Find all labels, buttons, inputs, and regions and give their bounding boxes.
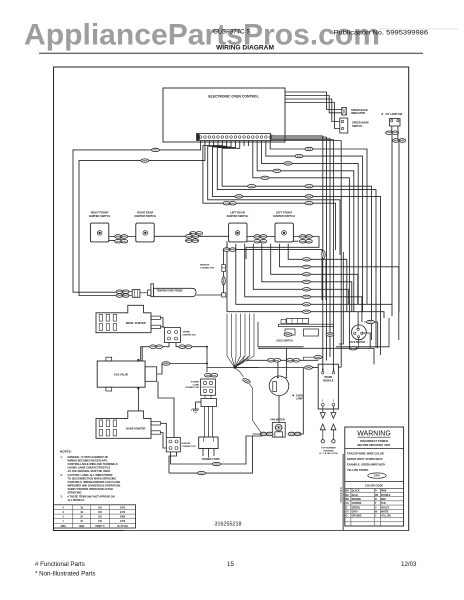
gas valve tab bottom: [106, 387, 112, 391]
connector on wire S-3: [305, 195, 313, 198]
connector on wire S-5: [305, 185, 313, 188]
svg-text:2473: 2473: [120, 520, 126, 523]
electronic oven control U1: [163, 88, 285, 142]
svg-text:BU: BU: [346, 495, 350, 497]
wire block to probe: [140, 292, 148, 294]
fan motor M1: [272, 422, 285, 437]
connector below right: [322, 251, 325, 259]
wire S-5: [222, 141, 371, 341]
svg-text:SPEED BAKE: SPEED BAKE: [351, 108, 368, 112]
svg-text:TAN: TAN: [381, 502, 386, 505]
ground symbol: [195, 402, 197, 409]
wire C-3: [271, 137, 331, 139]
wire R1-3: [262, 141, 359, 305]
svg-text:SERVICING.: SERVICING.: [68, 490, 83, 494]
svg-text:15: 15: [227, 561, 234, 568]
svg-text:AS THE ORIGINAL MUST BE USED.: AS THE ORIGINAL MUST BE USED.: [68, 469, 111, 473]
diagram border: [54, 67, 409, 531]
connector pair lamp bus left: [268, 359, 281, 363]
igniter connector B: [166, 437, 180, 452]
connector pair on wire A2: [179, 345, 192, 349]
svg-text:ALL MODELS.: ALL MODELS.: [68, 498, 86, 502]
connector on sensor chain: [222, 277, 225, 285]
wire lock motor bottom: [358, 337, 360, 348]
temperature probe collar: [148, 290, 151, 296]
igniter connector A: [164, 328, 180, 343]
svg-text:BAKE IGNITER: BAKE IGNITER: [126, 427, 145, 431]
svg-text:CONTROLLABLE WIRE AND TERMINAL: CONTROLLABLE WIRE AND TERMINALS: [68, 462, 118, 466]
wire loop-4: [262, 244, 352, 312]
probe connector block: [132, 290, 140, 298]
svg-text:POWER: POWER: [191, 382, 200, 384]
svg-text:HAVING SAME CHARACTERISTICS: HAVING SAME CHARACTERISTICS: [68, 466, 111, 470]
svg-text:LOCK SWITCH: LOCK SWITCH: [276, 340, 293, 343]
svg-text:TEMPERATURE PROBE: TEMPERATURE PROBE: [157, 290, 184, 293]
junction dot gas valve bottom: [137, 387, 139, 389]
svg-text:BK: BK: [346, 491, 350, 493]
svg-text:GRAY: GRAY: [352, 511, 359, 514]
svg-text:FAN MOTOR: FAN MOTOR: [270, 419, 285, 422]
power cord plug: [199, 437, 218, 449]
wire S-1: [203, 141, 336, 251]
wire igniter bus 2-3: [154, 235, 228, 237]
wire loop-1: [288, 244, 347, 312]
bake igniter tabs: [151, 422, 161, 425]
wire C-4: [271, 138, 334, 140]
connector on bottom bus 2: [198, 471, 206, 474]
svg-text:WIRING DIAGRAM: WIRING DIAGRAM: [216, 44, 274, 51]
svg-text:WIRING BECOMES NECESSARY,: WIRING BECOMES NECESSARY,: [68, 459, 108, 463]
svg-text:LEFT FRONT: LEFT FRONT: [276, 211, 293, 215]
wires connector to strain relief: [204, 395, 206, 398]
connector on left wire: [152, 148, 160, 151]
lock switch assembly: [281, 320, 286, 324]
connector on loop-5: [303, 288, 311, 291]
wire bottom bus 1: [177, 436, 252, 464]
connector on wire R1-3: [284, 162, 292, 165]
bake igniter: [96, 411, 151, 438]
svg-text:NOTED FIRST, STRIPE NEXT.: NOTED FIRST, STRIPE NEXT.: [347, 457, 383, 461]
svg-text:ORANGE: ORANGE: [352, 515, 363, 518]
svg-text:PURPLE: PURPLE: [381, 495, 391, 497]
svg-text:EXAMPLE: GREEN WIRE WITH: EXAMPLE: GREEN WIRE WITH: [347, 463, 385, 467]
wire lock motor top: [357, 312, 359, 329]
wire oven lamp bottom: [278, 396, 280, 423]
svg-text:BLACK: BLACK: [352, 490, 360, 493]
wire lower return 2: [245, 247, 247, 259]
svg-text:GREEN: GREEN: [352, 507, 361, 509]
connector cluster right of sw4: [299, 235, 312, 239]
connector on loop-3: [303, 273, 311, 276]
svg-text:2.: 2.: [61, 473, 63, 477]
wire lamp switch left leg: [391, 126, 393, 131]
wire EOC to left loop inner: [79, 141, 205, 296]
lock switch oval left: [284, 333, 292, 336]
connector on loop-4: [303, 280, 311, 283]
spark output arrows down: [320, 413, 325, 419]
svg-text:GAS VALVE: GAS VALVE: [114, 373, 129, 377]
wire valve ext down: [158, 381, 174, 437]
svg-text:RED: RED: [381, 499, 386, 501]
wire gauge table: [54, 505, 136, 528]
connector pair on lamp switch left leg: [386, 131, 399, 135]
wire R1-2: [266, 141, 363, 312]
gas valve tab top: [106, 357, 112, 361]
svg-text:TEMP °C: TEMP °C: [95, 526, 105, 528]
connector lamp bus single: [314, 356, 322, 359]
wire to lower right: [235, 250, 322, 253]
wire right vert 343: [342, 454, 344, 531]
svg-text:WARNING: WARNING: [357, 431, 391, 438]
svg-text:RIGHT REAR: RIGHT REAR: [137, 211, 153, 215]
wire R1-4: [257, 141, 354, 312]
svg-text:O: O: [346, 516, 348, 518]
svg-text:2473: 2473: [120, 511, 126, 514]
svg-text:TO DISCONNECTION WHEN SERVICIN: TO DISCONNECTION WHEN SERVICING: [68, 477, 117, 481]
wire broil tabs to connector: [161, 318, 164, 328]
svg-text:12/03: 12/03: [401, 561, 417, 568]
power cord connector J1: [201, 379, 216, 395]
wire fan right up: [299, 368, 303, 434]
wire lamp bus 2: [246, 359, 318, 361]
svg-text:UL STYLE: UL STYLE: [117, 526, 129, 528]
svg-text:CORD: CORD: [193, 384, 200, 386]
svg-text:YELLOW STRIPE.: YELLOW STRIPE.: [347, 468, 369, 472]
svg-text:TRACER WIRE: WIRE COLOR: TRACER WIRE: WIRE COLOR: [347, 452, 384, 456]
wire fan left: [253, 433, 263, 435]
connector on wire R1-1: [305, 147, 313, 150]
wire loop-7: [236, 244, 392, 316]
svg-text:COLOR CODE: COLOR CODE: [365, 484, 383, 488]
svg-text:(2, 3, 4 OR 5 PCS): (2, 3, 4 OR 5 PCS): [319, 452, 338, 455]
svg-text:CONNECTOR: CONNECTOR: [185, 387, 199, 389]
spark module U2: [318, 364, 338, 409]
connector on loop-8: [303, 310, 311, 313]
svg-text:# Functional Parts: # Functional Parts: [35, 561, 85, 568]
svg-text:POWER CORD: POWER CORD: [202, 458, 220, 461]
temperature probe flange: [151, 284, 154, 297]
svg-text:GR/Y: GR/Y: [374, 475, 380, 478]
wire loop-3: [271, 244, 358, 304]
svg-text:MODULE: MODULE: [323, 380, 334, 383]
svg-text:IGNITER SWITCH: IGNITER SWITCH: [273, 214, 295, 218]
strain relief: [201, 399, 217, 407]
svg-text:316255218-B: 316255218-B: [339, 487, 343, 503]
connector on valve wire: [162, 362, 170, 365]
connector pair lamp bus right: [287, 359, 300, 363]
wire stub to C rail: [325, 260, 327, 300]
speed bake switch S2: [340, 118, 348, 133]
svg-text:IGNITER SWITCH: IGNITER SWITCH: [89, 214, 111, 218]
connector on loop-1: [303, 258, 311, 261]
svg-text:316255218: 316255218: [215, 521, 242, 527]
svg-text:GLGF377C S: GLGF377C S: [213, 29, 251, 36]
connector on module feed: [305, 366, 313, 369]
wire bottom bus 2: [169, 436, 262, 473]
connector 2 on wire S-3: [235, 195, 243, 198]
svg-text:SPEED BAKE: SPEED BAKE: [352, 121, 369, 125]
svg-text:VERIFY PROPER OPERATION AFTER: VERIFY PROPER OPERATION AFTER: [68, 487, 114, 491]
wire S-3: [213, 141, 381, 356]
probe connector pair 2: [116, 294, 129, 298]
wire C-2: [271, 136, 327, 138]
wire R1-1: [270, 141, 367, 305]
svg-text:2472: 2472: [120, 506, 126, 509]
svg-text:* Non-Illustrated Parts: * Non-Illustrated Parts: [35, 571, 96, 578]
svg-text:ELECTRONIC OVEN CONTROL: ELECTRONIC OVEN CONTROL: [208, 95, 258, 99]
wire EOC to left loop outer: [73, 141, 201, 293]
wire loop-6: [245, 244, 362, 322]
svg-text:IGNITER SW: IGNITER SW: [183, 334, 197, 336]
connector pair above power cord connector: [205, 373, 218, 377]
wire C-5: [271, 140, 342, 142]
connector pair below sw3: [223, 248, 236, 252]
connector on loop-2: [303, 265, 311, 268]
wire loop-5: [253, 244, 348, 304]
wire igniter bus 3-4: [246, 236, 275, 238]
connector on wire S-1: [305, 202, 313, 205]
title rule: [39, 52, 423, 54]
probe connector pair 1: [116, 290, 129, 294]
connector on wire R1-5: [261, 176, 269, 179]
lock motor M2: [352, 325, 367, 340]
svg-text:CONNECTOR: CONNECTOR: [200, 267, 214, 269]
wire gas valve top right: [141, 347, 143, 361]
svg-text:LEFT REAR: LEFT REAR: [230, 211, 245, 215]
svg-text:BEFORE SERVICING UNIT.: BEFORE SERVICING UNIT.: [358, 443, 391, 447]
connector left igniter row: [190, 232, 203, 236]
oven lamp E1: [269, 376, 289, 396]
junction node X: [233, 366, 235, 368]
rule under part number: [124, 530, 409, 532]
wire below igniter connector A: [141, 343, 169, 361]
lock switch bar: [278, 324, 333, 326]
connector pair on lamp switch right leg: [393, 139, 406, 143]
faint top rule: [378, 28, 458, 30]
wire sensor to probe jack: [197, 294, 222, 296]
wire vert 343: [339, 252, 343, 344]
lock switch oval right: [326, 333, 334, 336]
connector on loop-6: [303, 295, 311, 298]
svg-text:CONNECTOR: CONNECTOR: [182, 446, 196, 448]
svg-text:BROWN: BROWN: [352, 499, 361, 501]
tracer example oval: [368, 473, 386, 478]
svg-text:IGNITER SWITCH: IGNITER SWITCH: [227, 214, 249, 218]
svg-text:YELLOW: YELLOW: [381, 516, 392, 518]
power cord cable: [204, 407, 206, 438]
svg-text:DISCONNECT POWER: DISCONNECT POWER: [360, 439, 388, 443]
wire stub terminals: [208, 141, 210, 147]
sensor junction square: [222, 293, 226, 297]
EOC terminal strip: [197, 134, 271, 141]
temperature probe body: [154, 288, 197, 296]
lock enclosure: [258, 318, 389, 347]
svg-text:LOCK MOTOR: LOCK MOTOR: [349, 341, 366, 344]
svg-text:COPPER: COPPER: [352, 503, 362, 505]
svg-text:BLUE: BLUE: [352, 495, 359, 497]
svg-text:OV LAMP SW: OV LAMP SW: [386, 112, 403, 116]
wire lock motor right: [362, 333, 370, 348]
svg-text:NOTES:: NOTES:: [60, 449, 72, 453]
wire connector B to bottom bus: [171, 452, 178, 464]
svg-text:INDICATOR: INDICATOR: [351, 111, 365, 115]
broil igniter: [96, 305, 151, 332]
broil igniter tabs: [151, 316, 161, 319]
wire loop-2: [280, 244, 399, 340]
svg-text:SENSOR: SENSOR: [200, 265, 210, 267]
svg-text:AWG: AWG: [60, 525, 66, 528]
connector on diagonal wire: [242, 378, 251, 384]
connector on wire R1-4: [273, 169, 281, 172]
wire sw4 return loop: [246, 237, 319, 248]
svg-text:BR: BR: [346, 499, 350, 501]
gas valve V1: [97, 361, 145, 387]
connector on bottom bus 1: [213, 462, 221, 465]
svg-text:G: G: [346, 507, 348, 509]
svg-text:AWG: AWG: [79, 525, 85, 528]
wire lamp switch right leg: [397, 126, 399, 139]
connector cluster between sw1 sw2: [115, 235, 128, 239]
svg-text:2465: 2465: [120, 516, 126, 519]
wire sensor chain: [223, 250, 225, 265]
svg-text:SWITCH: SWITCH: [352, 124, 362, 128]
svg-text:GENERAL: IF REPLACEMENT OF: GENERAL: IF REPLACEMENT OF: [68, 455, 109, 459]
gas valve right extension: [145, 367, 157, 382]
svg-text:VIOLET: VIOLET: [381, 507, 390, 509]
svg-text:IGNITER: IGNITER: [182, 443, 191, 445]
spark receive arrows up: [320, 424, 325, 430]
wire elbow into module right: [338, 366, 341, 368]
wire loop-8: [227, 244, 384, 318]
power cord prongs: [202, 449, 204, 457]
wire convergence into X: [227, 314, 235, 368]
junction dot gas valve top: [137, 359, 139, 361]
wire module feed: [235, 367, 304, 369]
svg-text:✶: ✶: [381, 112, 384, 116]
wire S-2: [208, 141, 340, 256]
connector on left inner wire: [141, 159, 149, 162]
wire igniter bus 1-2: [109, 236, 136, 238]
wire center vertical to power connector: [206, 347, 208, 372]
svg-text:WHITE: WHITE: [381, 512, 389, 514]
connector 2 on wire S-5: [248, 185, 256, 188]
wire gas valve bottom down: [137, 388, 139, 411]
wire R1-5: [253, 141, 350, 349]
svg-text:1.: 1.: [61, 455, 63, 459]
connector cluster right of sw2: [186, 235, 199, 239]
wire S-4: [217, 141, 376, 349]
wire EOC to speed bake switch: [285, 99, 340, 122]
svg-text:IGNITERS: IGNITERS: [323, 450, 334, 452]
svg-text:N: N: [322, 368, 324, 371]
connector on loop-7: [303, 303, 311, 306]
wire C-1: [271, 135, 323, 137]
svg-text:# THESE ITEMS MAY NOT APPEAR O: # THESE ITEMS MAY NOT APPEAR ON: [68, 494, 115, 498]
connector cluster between sw3 sw4: [254, 235, 267, 239]
svg-text:TOP BURNER: TOP BURNER: [321, 448, 336, 450]
svg-text:AppliancePartsPros.com: AppliancePartsPros.com: [24, 19, 380, 52]
connector on wire R1-2: [295, 154, 303, 157]
svg-text:BROIL IGNITER: BROIL IGNITER: [126, 321, 146, 325]
connector pair on wire A1: [150, 345, 163, 349]
svg-text:PR: PR: [375, 495, 379, 497]
connector pair fan left: [260, 432, 273, 436]
wire oven lamp top: [285, 348, 287, 376]
connector right of lock motor: [367, 320, 375, 323]
svg-text:CONTROLS. WIRING ERRORS CAN C: CONTROLS. WIRING ERRORS CAN CAUSE: [68, 480, 121, 484]
wire bake tabs to connector B: [161, 423, 167, 437]
wire EOC to speed bake indicator: [285, 92, 342, 110]
svg-text:GY: GY: [346, 512, 350, 514]
wire lamp bus 1: [258, 348, 374, 364]
svg-text:Publication No. 5995399986: Publication No. 5995399986: [334, 29, 429, 36]
lock switch lower parts: [285, 329, 295, 335]
svg-text:IMPROPER AND DANGEROUS OPERATI: IMPROPER AND DANGEROUS OPERATION.: [68, 483, 122, 487]
connector pair fan right: [288, 432, 301, 436]
svg-text:IGNITER SWITCH: IGNITER SWITCH: [135, 214, 157, 218]
svg-text:3.: 3.: [61, 494, 63, 498]
color code table: [345, 491, 404, 493]
wire right of sw4: [293, 236, 316, 238]
warning box: [345, 427, 404, 526]
svg-text:CAUTION: LABEL ALL WIRES PRIO: CAUTION: LABEL ALL WIRES PRIOR: [68, 473, 113, 477]
svg-text:RIGHT FRONT: RIGHT FRONT: [91, 211, 109, 215]
oven lamp switch S3: [390, 119, 401, 127]
connector below lock motor: [349, 347, 357, 350]
svg-text:SPARK: SPARK: [183, 331, 191, 334]
svg-text:CU: CU: [346, 503, 350, 505]
speed bake indicator DS2: [342, 108, 347, 116]
svg-text:LAMP: LAMP: [296, 398, 303, 401]
svg-text:PINK: PINK: [381, 491, 387, 493]
sensor connector block: [222, 265, 226, 272]
wire igniter lower return: [224, 241, 227, 249]
connector pair on wire S-1: [223, 201, 236, 205]
wire module bottom legs: [322, 406, 324, 412]
